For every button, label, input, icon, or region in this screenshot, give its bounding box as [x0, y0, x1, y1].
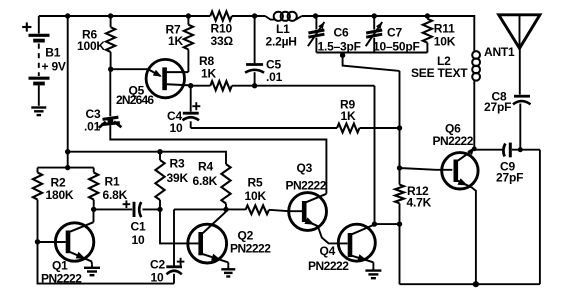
resistor R1 [89, 168, 98, 210]
label C1 [131, 220, 146, 248]
node R3 top [157, 149, 162, 154]
wire Q1 base [38, 241, 66, 243]
wire C9 line [474, 149, 540, 151]
svg-text:10: 10 [132, 233, 145, 247]
node Q6 emitter bottom junction [473, 281, 479, 287]
wire antenna to C8 [519, 48, 521, 94]
svg-text:C7: C7 [387, 26, 402, 40]
svg-text:10: 10 [151, 271, 164, 285]
capacitor C1 10uF [94, 200, 160, 217]
label Q6 [433, 122, 474, 149]
wire right rail [400, 71, 540, 284]
node Q1 base junction [35, 239, 40, 244]
resistor R10 [210, 11, 232, 20]
wire R2-R1 top line [38, 167, 94, 169]
label L2 [411, 54, 468, 80]
node C7 top [372, 13, 377, 18]
svg-text:ANT1: ANT1 [484, 45, 515, 59]
svg-text:33Ω: 33Ω [211, 34, 234, 48]
svg-text:R4: R4 [198, 160, 213, 174]
node C5 top [252, 13, 257, 18]
svg-text:PN2222: PN2222 [286, 178, 327, 192]
capacitor C7 variable [366, 16, 383, 53]
node Q5 emitter junction [108, 67, 113, 72]
svg-text:4.7K: 4.7K [407, 196, 432, 210]
svg-text:.01: .01 [84, 120, 101, 134]
label Q4 [308, 244, 349, 273]
svg-text:Q1: Q1 [52, 259, 68, 273]
capacitor C2 10uF [166, 209, 184, 283]
label R7 [166, 23, 184, 48]
label C9 [496, 159, 523, 184]
antenna ANT1 [499, 15, 540, 49]
node Q6 base junction [397, 165, 402, 170]
svg-text:10: 10 [170, 121, 183, 135]
resistor R6 [106, 16, 115, 69]
resistor R8 [191, 81, 375, 90]
svg-text:10K: 10K [434, 35, 456, 49]
transistor Q1 PN2222 [55, 209, 93, 264]
node R6 top [108, 13, 113, 18]
svg-text:1K: 1K [168, 34, 183, 48]
label B1 [45, 46, 60, 60]
node R9-right junction [397, 125, 402, 130]
label C8 [484, 89, 511, 114]
ground (Q2 emitter) [221, 266, 235, 277]
node Q5 B1 junction [188, 83, 193, 88]
label ANT1 [484, 45, 515, 59]
resistor R9 [191, 124, 400, 133]
svg-text:2N2646: 2N2646 [116, 93, 154, 107]
label R5 [245, 176, 267, 203]
transistor Q2 PN2222 [188, 209, 229, 265]
node battery-rail junction [65, 13, 70, 18]
svg-text:PN2222: PN2222 [230, 241, 271, 255]
node C5 bottom [252, 83, 257, 88]
svg-text:10K: 10K [245, 189, 267, 203]
node Q6 collector junction [467, 146, 476, 155]
node R11 top [425, 13, 430, 18]
wire Q6 base [400, 168, 453, 170]
transistor Q3 PN2222 [289, 193, 348, 244]
wire left rail [67, 16, 69, 168]
transistor Q4 PN2222 [338, 224, 375, 267]
capacitor C3 .01 and wire to Q3 collector [99, 69, 327, 194]
resistor R11 [423, 19, 432, 53]
svg-text:100K: 100K [77, 39, 105, 53]
label Q1 [41, 259, 82, 286]
node C6-C7 bottom junction [340, 53, 400, 71]
svg-text:1K: 1K [201, 67, 216, 81]
wire C6-C7-R11 bottom [316, 52, 427, 54]
label R6 [77, 28, 105, 53]
wire top +9V rail [39, 16, 475, 52]
node left-rail R3 line [65, 149, 70, 154]
wire Q2 base [160, 209, 198, 243]
label R11 [434, 22, 456, 49]
svg-text:2.2µH: 2.2µH [266, 34, 297, 48]
wire Q2 collector line [174, 208, 246, 210]
svg-text:C2: C2 [150, 258, 165, 272]
label R9 [340, 98, 356, 123]
label Q3 [286, 161, 327, 192]
svg-text:R11: R11 [434, 22, 455, 36]
svg-text:C1: C1 [131, 220, 146, 234]
ground (Q1 emitter) [84, 264, 100, 275]
battery B1 +9V [22, 16, 49, 106]
svg-text:PN2222: PN2222 [433, 134, 474, 148]
svg-text:180K: 180K [46, 188, 74, 202]
svg-text:PN2222: PN2222 [308, 259, 349, 273]
svg-text:R1: R1 [105, 175, 120, 189]
inductor L2 [472, 51, 480, 149]
resistor R12 [395, 185, 404, 204]
svg-text:27pF: 27pF [496, 171, 523, 185]
node Q4 collector-rail junction [397, 221, 402, 226]
wire R8-node vertical [374, 86, 376, 224]
capacitor C4 10uF [183, 86, 201, 128]
label Q5 [116, 84, 154, 108]
label Q2 [230, 229, 271, 256]
label C2 [150, 258, 165, 285]
label C6 [318, 26, 361, 54]
svg-text:Q3: Q3 [297, 161, 313, 175]
label R8 [199, 54, 216, 81]
inductor L1 2.2uH [265, 12, 302, 21]
svg-text:1K: 1K [341, 109, 356, 123]
capacitor C8 27pF [513, 96, 531, 150]
label C4 [167, 109, 183, 135]
wire R3-R4 top line [68, 152, 226, 164]
capacitor C5 [245, 16, 264, 86]
node L1-C6 junction [313, 13, 318, 18]
label R3 [167, 157, 189, 185]
svg-text:B1: B1 [45, 46, 60, 60]
label C7 [373, 26, 420, 54]
label L1 [266, 22, 297, 48]
svg-text:27pF: 27pF [484, 100, 511, 114]
resistor R7 [184, 16, 193, 72]
label C3 [84, 107, 101, 134]
wire Q1 base to C2 bottom [38, 242, 175, 284]
svg-text:39K: 39K [167, 171, 189, 185]
resistor R3 [155, 152, 164, 210]
ground (Q4 emitter) [365, 267, 381, 278]
svg-text:R3: R3 [170, 157, 185, 171]
node C8-C9 junction [518, 147, 523, 152]
label +9V [42, 60, 66, 74]
label R2 [46, 176, 74, 202]
label R12 [407, 184, 432, 210]
svg-text:C6: C6 [334, 26, 349, 40]
node left-rail R2 line [65, 165, 70, 170]
transistor Q6 PN2222 [442, 150, 478, 285]
svg-text:SEE TEXT: SEE TEXT [411, 66, 468, 80]
node Q2 collector junction [223, 207, 228, 212]
svg-text:R5: R5 [248, 176, 263, 190]
svg-text:1.5–3pF: 1.5–3pF [318, 40, 361, 54]
capacitor C6 variable [308, 16, 325, 53]
node C1-R3-Q2base junction [157, 207, 162, 212]
svg-text:Q4: Q4 [320, 244, 336, 258]
svg-text:6.8K: 6.8K [193, 174, 218, 188]
svg-text:10–50pF: 10–50pF [373, 40, 420, 54]
capacitor C9 27pF [503, 143, 510, 158]
node R7 top [186, 13, 191, 18]
node Q4 collector junction [372, 221, 377, 226]
label C5 [266, 58, 283, 84]
wire Q4 collector to rail [375, 223, 400, 225]
svg-text:+ 9V: + 9V [42, 60, 66, 74]
resistor R4 [221, 164, 230, 209]
label R4 [193, 160, 218, 188]
transistor Q5 2N2646 [146, 59, 191, 97]
node R1-C1-Q1 junction [91, 207, 96, 212]
resistor R2 [33, 168, 42, 242]
label R10 [211, 22, 234, 49]
wire Q5 emitter [111, 68, 148, 70]
svg-text:.01: .01 [266, 70, 283, 84]
label R1 [103, 175, 128, 202]
svg-text:6.8K: 6.8K [103, 188, 128, 202]
ground (battery) [31, 108, 46, 116]
resistor R5 [246, 205, 303, 214]
